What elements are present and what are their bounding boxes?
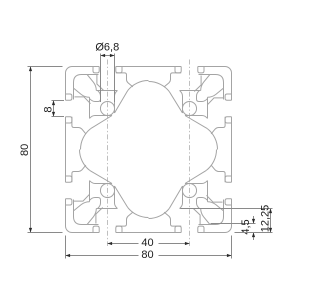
dimension D6,8 top: extension line right tangent	[114, 54, 116, 103]
top slot funnel inner wall	[115, 91, 118, 114]
svg-text:12,25: 12,25	[259, 205, 271, 233]
dimension D6,8 top: arrow left	[101, 54, 106, 57]
central cavity edge to left lobe	[91, 116, 112, 129]
left slot upper lip tab	[66, 94, 72, 100]
centerline of slot column x=189	[189, 60, 191, 247]
dimension 80 left: arrow bottom	[29, 228, 32, 233]
central cavity edge to top lobe	[115, 91, 128, 113]
dimension 80 left: dimension line	[30, 67, 32, 233]
dimension 80 bottom: dimension line	[66, 255, 139, 257]
top slot cavity shoulder left	[87, 74, 98, 76]
svg-text:40: 40	[141, 237, 153, 249]
top slot left lip tab	[93, 67, 99, 73]
dimension 8 left slot: extension line bottom	[52, 116, 65, 118]
svg-text:8: 8	[43, 106, 55, 112]
dimension 8 left slot: extension line top	[52, 100, 65, 102]
dimension 12,25 right: dimension line	[270, 209, 272, 233]
left surface lower segment	[65, 117, 67, 150]
dimension 80 left: extension line top	[28, 66, 63, 68]
dimension 12,25 right: extension line top	[181, 208, 273, 210]
top slot cavity floor	[96, 90, 117, 92]
left slot funnel inner wall	[90, 116, 113, 119]
svg-text:80: 80	[19, 144, 31, 156]
dimension 8 left slot: arrow bottom	[52, 112, 55, 117]
dimension 40 bottom: dimension line	[108, 243, 139, 245]
dimension 4,5 right: extension line top	[211, 223, 256, 225]
dimension 40 bottom: arrow left	[108, 242, 113, 245]
dimension 4,5 right: arrow top (outside)	[252, 219, 255, 224]
dimension 80 bottom: extension line left	[65, 236, 67, 259]
top lobe apex arc left half	[128, 81, 149, 91]
dimension 12,25 right: arrow top	[269, 209, 272, 214]
svg-text:80: 80	[141, 249, 153, 261]
left surface upper segment	[65, 73, 67, 100]
corner cavity rounded corner	[74, 75, 88, 89]
profile quadrant rotated 270 (bottom-left)	[66, 150, 149, 233]
dimension 8 left slot: dimension line	[53, 101, 55, 117]
dimension 8 left slot: arrow top	[52, 101, 55, 106]
left slot lower lip tab	[66, 117, 72, 123]
dimension 4,5 right: arrow bottom (outside)	[252, 233, 255, 238]
dimension D6,8 top: dimension line	[101, 55, 115, 57]
boss wrap corner	[98, 99, 101, 102]
left slot cavity shoulder upper	[73, 88, 75, 99]
dimension 40 bottom: arrow right	[185, 242, 190, 245]
dimension 80 bottom: arrow right	[227, 254, 232, 257]
dimension 80 bottom: extension line right	[231, 236, 233, 259]
top surface left segment	[72, 66, 99, 68]
top slot funnel outer wall	[98, 91, 101, 99]
left slot inner step	[72, 117, 86, 134]
dimension D6,8 top: arrow right	[110, 54, 115, 57]
profile quadrant rotated 180 (bottom-right)	[149, 150, 232, 233]
dimension 80 left: extension line bottom	[28, 232, 63, 234]
left slot funnel outer wall	[90, 99, 98, 102]
outer corner arc	[66, 67, 73, 74]
top slot inner step	[116, 73, 133, 87]
top slot right lip tab	[116, 67, 122, 73]
dimension 80 bottom: arrow left	[66, 254, 71, 257]
left lobe apex arc upper half	[81, 129, 91, 150]
left slot cavity taper upper	[74, 88, 90, 97]
left slot cavity floor	[89, 97, 91, 118]
dimension 12,25 right: extension line bottom	[235, 232, 273, 234]
dimension 12,25 right: arrow bottom	[269, 228, 272, 233]
profile 80x80 cross-section	[66, 67, 232, 233]
dimension D6,8 top: extension line left tangent	[100, 54, 102, 103]
dimension 4,5 right: dimension line stubs	[253, 216, 255, 224]
top slot cavity taper left	[87, 75, 96, 91]
svg-text:Ø6,8: Ø6,8	[95, 42, 119, 54]
profile quadrant rotated 90 (top-right)	[149, 67, 232, 150]
dimension 80 left: arrow top	[29, 67, 32, 72]
corner cavity bottom wall	[75, 97, 91, 104]
core hole 6.8	[100, 101, 114, 115]
top surface right segment	[116, 66, 149, 68]
centerline of slot column x=107	[107, 60, 109, 247]
corner cavity right wall	[97, 75, 104, 91]
